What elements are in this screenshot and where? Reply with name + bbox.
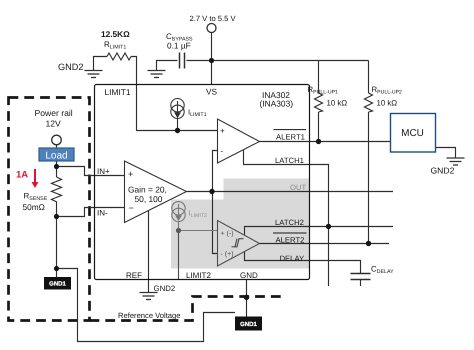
svg-text:GND: GND xyxy=(240,271,258,280)
svg-text:50, 100: 50, 100 xyxy=(135,194,163,204)
svg-text:−: − xyxy=(129,203,134,213)
svg-text:REF: REF xyxy=(126,271,142,280)
svg-text:12V: 12V xyxy=(46,119,62,129)
svg-text:CDELAY: CDELAY xyxy=(371,265,394,276)
svg-text:50mΩ: 50mΩ xyxy=(23,202,45,212)
svg-text:LIMIT2: LIMIT2 xyxy=(186,271,211,280)
svg-text:LATCH1: LATCH1 xyxy=(275,156,304,165)
svg-text:VS: VS xyxy=(206,87,218,97)
svg-text:10 kΩ: 10 kΩ xyxy=(327,99,348,108)
svg-text:OUT: OUT xyxy=(290,183,307,192)
svg-text:(INA303): (INA303) xyxy=(260,99,294,109)
svg-text:10 kΩ: 10 kΩ xyxy=(377,99,398,108)
svg-text:RPULL-UP2: RPULL-UP2 xyxy=(372,85,403,96)
svg-text:Load: Load xyxy=(45,151,67,162)
svg-text:Gain = 20,: Gain = 20, xyxy=(128,185,167,195)
svg-text:2.7 V to 5.5 V: 2.7 V to 5.5 V xyxy=(190,14,237,23)
svg-text:GND1: GND1 xyxy=(240,321,257,328)
svg-text:ILIMIT1: ILIMIT1 xyxy=(188,108,207,119)
svg-text:GND2: GND2 xyxy=(58,62,84,72)
svg-text:IN+: IN+ xyxy=(97,167,110,176)
svg-text:ALERT1: ALERT1 xyxy=(276,133,305,142)
svg-text:LIMIT1: LIMIT1 xyxy=(105,87,131,97)
svg-text:MCU: MCU xyxy=(401,128,424,139)
svg-text:GND2: GND2 xyxy=(154,284,176,293)
svg-text:IN-: IN- xyxy=(97,209,108,218)
svg-text:-: - xyxy=(221,147,224,156)
svg-text:+: + xyxy=(220,127,225,136)
svg-text:12.5KΩ: 12.5KΩ xyxy=(101,29,130,39)
svg-text:Reference Voltage: Reference Voltage xyxy=(118,311,180,320)
svg-text:RSENSE: RSENSE xyxy=(24,192,48,203)
svg-text:0.1 µF: 0.1 µF xyxy=(167,41,191,51)
svg-text:ALERT2: ALERT2 xyxy=(276,236,305,245)
svg-text:GND2: GND2 xyxy=(431,166,455,176)
svg-text:1A: 1A xyxy=(16,170,28,181)
svg-text:Power rail: Power rail xyxy=(35,108,73,118)
svg-text:+: + xyxy=(128,169,133,179)
svg-text:GND1: GND1 xyxy=(49,281,66,288)
svg-text:LATCH2: LATCH2 xyxy=(275,218,304,227)
svg-text:RLIMIT1: RLIMIT1 xyxy=(104,40,126,51)
svg-text:DELAY: DELAY xyxy=(280,254,305,263)
svg-text:- (+): - (+) xyxy=(221,250,234,258)
svg-text:RPULL-UP1: RPULL-UP1 xyxy=(308,85,339,96)
svg-text:+ (-): + (-) xyxy=(221,230,234,238)
